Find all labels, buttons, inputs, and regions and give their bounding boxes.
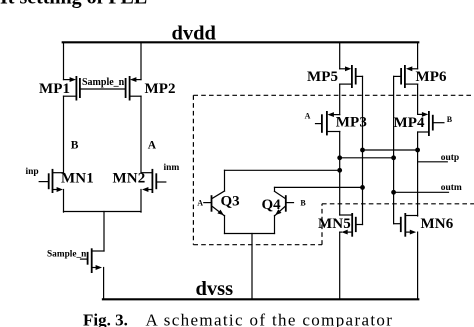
junction Q4 collector / MP5 gate line	[360, 185, 365, 190]
svg-text:MN6: MN6	[421, 216, 454, 232]
svg-text:outm: outm	[441, 183, 462, 193]
wire tail drain vertical	[103, 212, 105, 252]
wire MP2 source to rail	[140, 42, 142, 79]
dvss rail	[103, 298, 418, 300]
wire MN2 source down	[140, 190, 142, 213]
wire MP5 drain to MP3 source	[339, 84, 341, 115]
wire node A (MP2 drain to MN2 drain)	[140, 96, 142, 173]
clipped heading text fragment	[0, 0, 147, 9]
svg-text:Fig. 3.: Fig. 3.	[83, 311, 128, 327]
wire Q4 collector to gate line	[275, 186, 363, 188]
wire MP6 source to rail	[417, 42, 419, 69]
svg-text:MP1: MP1	[39, 81, 70, 97]
transistor MN1 (NMOS)	[39, 169, 63, 193]
svg-text:A: A	[197, 198, 203, 207]
transistor MP1 (PMOS)	[64, 76, 80, 101]
wire common emitters Q3/Q4	[225, 233, 275, 235]
wire Sample_n gate (MP1 to MP2)	[80, 88, 126, 90]
svg-text:outp: outp	[441, 153, 459, 163]
wire MP5 source to rail	[339, 42, 341, 69]
svg-text:inm: inm	[164, 163, 180, 173]
dvdd rail	[63, 41, 419, 43]
transistor MN2 (NMOS)	[141, 169, 166, 193]
svg-text:MP2: MP2	[145, 81, 176, 97]
wire MP6 drain to MP4 source	[417, 84, 419, 114]
wire cross-couple node X to MP6 gate	[340, 157, 394, 159]
label Sample_n (tail gate)	[47, 249, 87, 259]
wire Q3 collector to node X	[225, 169, 340, 171]
svg-text:MN2: MN2	[113, 171, 146, 187]
transistor MP2 (PMOS)	[126, 76, 141, 101]
svg-text:MP3: MP3	[336, 114, 367, 130]
wire MN1 source down	[63, 190, 65, 213]
wire MP6/MN6 gate line	[393, 76, 395, 223]
svg-text:B: B	[300, 198, 306, 207]
svg-text:A: A	[305, 112, 311, 121]
transistor Q3 (NPN)	[204, 170, 225, 233]
dashed box boundary	[193, 95, 474, 244]
svg-text:dvss: dvss	[196, 278, 234, 300]
svg-text:A schematic of the comparator: A schematic of the comparator	[146, 311, 394, 327]
svg-text:B: B	[71, 140, 79, 152]
svg-text:B: B	[447, 115, 453, 124]
transistor MN5 (NMOS)	[340, 213, 363, 237]
svg-text:Q4: Q4	[262, 197, 282, 213]
wire node B (MP1 drain to MN1 drain)	[63, 96, 65, 173]
svg-text:It settling of PLL: It settling of PLL	[0, 0, 147, 9]
wire MP4 drain to MN6 drain (node Y)	[417, 132, 419, 216]
svg-text:MP4: MP4	[394, 115, 426, 131]
wire MN5 source to dvss	[339, 232, 341, 299]
wire MP5/MN5 gate line	[362, 76, 364, 224]
svg-text:inp: inp	[26, 167, 39, 177]
svg-text:A: A	[148, 140, 157, 152]
transistor MP6 (PMOS)	[394, 65, 418, 88]
svg-text:Q3: Q3	[221, 194, 240, 210]
transistor MN6 (NMOS)	[394, 213, 418, 237]
svg-text:MN5: MN5	[318, 216, 351, 232]
wire MP3 drain to MN5 drain (node X)	[339, 132, 341, 216]
svg-text:MN1: MN1	[61, 171, 94, 187]
junction Q3 collector / node X	[337, 168, 342, 173]
svg-text:dvdd: dvdd	[172, 23, 217, 45]
transistor tail NMOS Sample_n	[81, 248, 105, 299]
wire outp	[418, 161, 448, 163]
transistor Q4 (NPN)	[275, 187, 294, 233]
svg-text:Sample_n: Sample_n	[47, 249, 87, 259]
wire cross-couple node Y to MP5 gate	[363, 149, 418, 151]
wire common source of MN1/MN2	[64, 211, 142, 213]
svg-text:MP6: MP6	[416, 69, 448, 85]
wire emitter tail to dvss	[251, 234, 253, 300]
wire MP1 source to rail	[63, 42, 65, 79]
figure caption	[83, 311, 393, 327]
svg-text:MP5: MP5	[307, 69, 338, 85]
svg-text:Sample_n: Sample_n	[82, 77, 125, 88]
transistor MP3 (PMOS)	[316, 111, 340, 135]
transistor MP5 (PMOS)	[340, 65, 363, 88]
wire outm	[394, 191, 449, 193]
transistor MP4 (PMOS)	[418, 111, 444, 136]
wire MN6 source to dvss	[417, 232, 419, 299]
